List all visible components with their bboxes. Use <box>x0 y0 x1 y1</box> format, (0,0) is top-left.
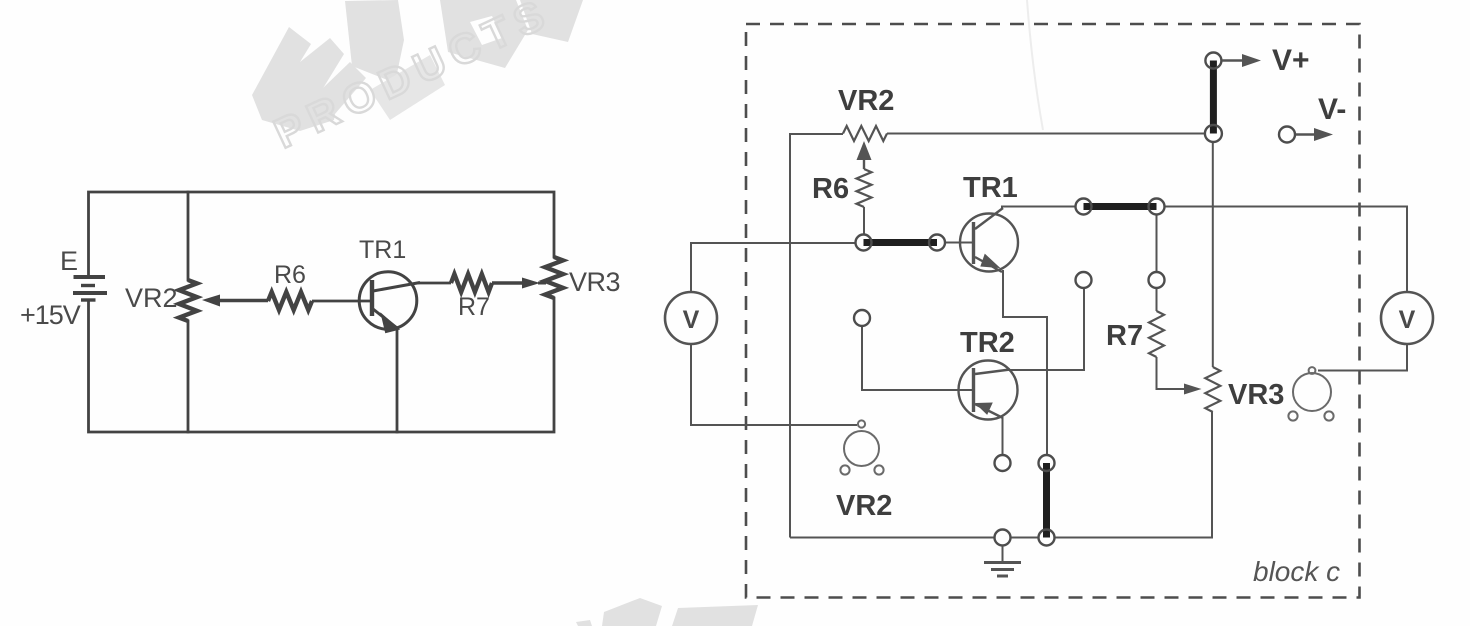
watermark text PRODUCTS (outlined, rotated) <box>267 0 558 157</box>
svg-text:R6: R6 <box>274 261 306 289</box>
wire + wiper arrow into VR3 <box>492 278 546 289</box>
transistor TR1 (left) <box>359 272 420 332</box>
svg-text:VR2: VR2 <box>836 490 892 522</box>
terminal R7 upper <box>1149 272 1165 288</box>
watermark fragment bottom-left <box>576 598 758 626</box>
svg-text:TR2: TR2 <box>960 327 1015 359</box>
svg-text:V-: V- <box>1318 93 1346 126</box>
terminal pads (white blanking) <box>855 54 1294 545</box>
terminal TR2 base <box>854 310 870 326</box>
resistor VR3 (vertical zigzag) <box>1205 367 1220 412</box>
terminal R7 top <box>1149 199 1165 215</box>
watermark logo (top, halftone gray) <box>252 0 583 131</box>
wire link to TR1 base <box>945 242 973 244</box>
terminal V+ rail node <box>1205 125 1222 142</box>
terminal TR1 collector <box>1076 199 1092 215</box>
terminal TR1 base <box>929 235 945 251</box>
resistor VR2 (left pot element) <box>179 280 197 321</box>
terminal ground <box>995 530 1011 546</box>
resistor VR2 (top zigzag) <box>843 126 887 141</box>
terminal TR2 emitter <box>995 455 1011 471</box>
link bar R6-TR1 base (horizontal) <box>864 239 938 246</box>
wire R6 bottom to link terminal <box>863 207 865 235</box>
transistor TR2 (right, PNP) <box>959 361 1018 420</box>
arrow V- <box>1296 128 1333 141</box>
svg-text:VR3: VR3 <box>1228 379 1284 411</box>
wire TR1 collector to R7 <box>417 282 451 285</box>
voltmeter V (right) <box>1381 292 1433 344</box>
svg-text:R7: R7 <box>1106 320 1143 352</box>
resistor R7 (left) <box>451 274 492 292</box>
terminal R6 bottom <box>856 235 872 251</box>
wire bottom rail right + right riser <box>1055 412 1213 538</box>
wire R7 branch: terminal to zigzag to VR3 wiper arrow <box>1156 215 1158 273</box>
link bar emitter-ground (vertical) <box>1043 463 1050 538</box>
svg-text:VR2: VR2 <box>125 283 178 313</box>
resistor R7 (vertical zigzag) <box>1149 311 1164 357</box>
wiper arrow into VR2 <box>202 295 268 307</box>
wire TR1 emitter path down to link <box>1003 270 1047 455</box>
wire top rail <box>89 192 555 277</box>
wire VR3 pot wiper to right V meter <box>1318 344 1407 371</box>
ground symbol <box>984 546 1021 577</box>
wire left V meter bottom probe to VR2 pot wiper <box>691 344 857 425</box>
svg-text:E: E <box>60 246 78 276</box>
wire TR2 base from terminal <box>862 326 973 390</box>
svg-text:+15V: +15V <box>20 300 81 330</box>
wire TR2 collector riser <box>1009 288 1084 370</box>
svg-text:VR2: VR2 <box>838 85 894 117</box>
svg-text:TR1: TR1 <box>359 236 406 264</box>
potentiometer VR2 body (bottom-left) <box>840 420 883 474</box>
link bar TR1 collector-R7 (horizontal) <box>1084 203 1157 210</box>
wire bottom rail <box>89 298 555 432</box>
faint pen stroke <box>1027 0 1043 130</box>
wire bottom rail <box>790 537 994 539</box>
wire TR1 emitter to bottom rail <box>396 330 399 432</box>
svg-text:V: V <box>1399 306 1416 334</box>
wire TR2 emitter to terminal <box>1002 417 1004 455</box>
voltmeter V (left) <box>665 292 717 344</box>
svg-text:block c: block c <box>1253 556 1340 587</box>
battery E plates <box>73 277 107 300</box>
terminal TR2 collector <box>1076 272 1092 288</box>
potentiometer VR3 body (right) <box>1288 367 1333 421</box>
resistor VR3 (left pot element) <box>545 257 563 298</box>
wire VR2 branch vertical <box>187 192 190 280</box>
resistor R6 (vertical zigzag) <box>857 169 872 207</box>
transistor TR1 (right) <box>960 208 1018 272</box>
wire R6 to TR1 base <box>312 300 372 303</box>
link bar V+ (vertical) <box>1210 61 1217 134</box>
wire VR2 zigzag to V+ lower terminal <box>887 133 1205 135</box>
terminal V+ post <box>1205 53 1221 69</box>
svg-text:TR1: TR1 <box>963 172 1018 204</box>
svg-text:V: V <box>683 306 700 334</box>
wiper arrow into VR3 <box>1184 384 1202 395</box>
resistor R6 (left) <box>268 292 312 310</box>
wire link to right V meter <box>1165 207 1408 293</box>
terminal ground link bottom <box>1039 530 1055 546</box>
terminal V- <box>1279 127 1295 143</box>
dashed block boundary <box>746 24 1360 598</box>
wire left V meter top probe <box>691 243 855 292</box>
wire VR2 top-left corner down the left side to bottom <box>790 134 843 538</box>
svg-text:R7: R7 <box>458 293 490 321</box>
wiper arrow up into VR2 <box>857 141 872 169</box>
svg-text:VR3: VR3 <box>569 267 620 297</box>
wire TR1 collector to link terminal <box>1002 207 1076 210</box>
svg-text:R6: R6 <box>812 173 849 205</box>
wire right riser upper (VR3 top to V+ lower terminal) <box>1212 142 1214 368</box>
terminal TR1 emitter link top <box>1039 455 1055 471</box>
svg-text:V+: V+ <box>1272 44 1310 77</box>
arrow V+ <box>1222 54 1261 67</box>
